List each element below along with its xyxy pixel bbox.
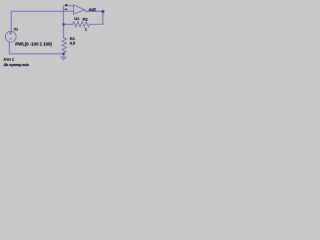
svg-text:R1: R1 bbox=[70, 36, 76, 41]
svg-text:.tran 1: .tran 1 bbox=[3, 58, 14, 62]
svg-text:PWL(0 -100 1 100): PWL(0 -100 1 100) bbox=[15, 41, 52, 46]
V1 minus bbox=[9, 38, 12, 40]
svg-text:V1: V1 bbox=[14, 27, 18, 31]
op-amp plus glyph (top input) bbox=[65, 4, 67, 6]
ground symbol bbox=[61, 57, 66, 60]
voltage source V1 circle bbox=[5, 31, 16, 42]
wire ground stub bbox=[63, 54, 65, 57]
svg-text:out: out bbox=[89, 7, 97, 12]
wire feedback from -in left then down to R2 and R1 bbox=[64, 6, 74, 38]
junction dot out node bbox=[102, 10, 105, 13]
svg-text:U1: U1 bbox=[74, 16, 80, 21]
wire R2 left lead bbox=[64, 23, 73, 25]
svg-text:.lib opamp.sub: .lib opamp.sub bbox=[3, 63, 30, 67]
wire V1 bottom to ground node bbox=[9, 42, 63, 53]
op-amp minus glyph (bottom input) bbox=[65, 8, 68, 10]
resistor R2 horizontal zigzag bbox=[73, 22, 90, 27]
junction dot feedback/R2 node bbox=[62, 23, 64, 25]
svg-text:8.5: 8.5 bbox=[70, 41, 75, 45]
junction dot ground node bbox=[62, 53, 64, 55]
wire R2 right lead to out vertical bbox=[90, 11, 103, 24]
wire top from V1 to opamp +in bbox=[11, 11, 73, 31]
wire opamp output jog bbox=[84, 10, 104, 12]
resistor R1 vertical zigzag bbox=[62, 38, 66, 53]
svg-text:R2: R2 bbox=[83, 16, 89, 21]
op-amp U1 triangle bbox=[74, 5, 85, 14]
V1 plus bbox=[10, 32, 12, 34]
